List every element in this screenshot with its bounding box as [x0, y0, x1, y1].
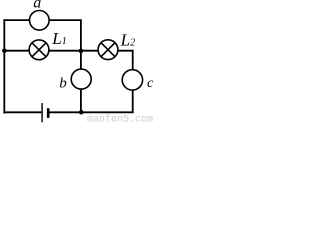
- svg-text:manfen5.com: manfen5.com: [87, 114, 153, 125]
- wire row2 horizontal: [4, 50, 134, 52]
- wire left vertical: [3, 19, 5, 113]
- svg-text:b: b: [59, 75, 67, 91]
- battery: long plate: [41, 103, 43, 122]
- ammeter c: [122, 70, 142, 90]
- svg-text:a: a: [33, 0, 41, 12]
- node: middle vertical / row2 junction: [79, 49, 84, 54]
- node: left wire / row2 junction: [2, 49, 7, 54]
- wire bottom right (battery to corner): [49, 111, 133, 113]
- ammeter b: [71, 69, 91, 89]
- wire bottom left (to battery): [4, 111, 42, 113]
- wire right vertical (L2 to c to bottom): [132, 50, 134, 112]
- ammeter a: [30, 10, 50, 30]
- wire top horizontal: [4, 19, 82, 21]
- node: middle vertical / bottom junction: [79, 110, 84, 115]
- wire middle vertical (top branch down through b): [80, 20, 82, 113]
- svg-text:c: c: [147, 76, 153, 91]
- lamp L2: [98, 40, 118, 60]
- lamp L1: [29, 40, 49, 60]
- battery: short plate: [47, 108, 50, 118]
